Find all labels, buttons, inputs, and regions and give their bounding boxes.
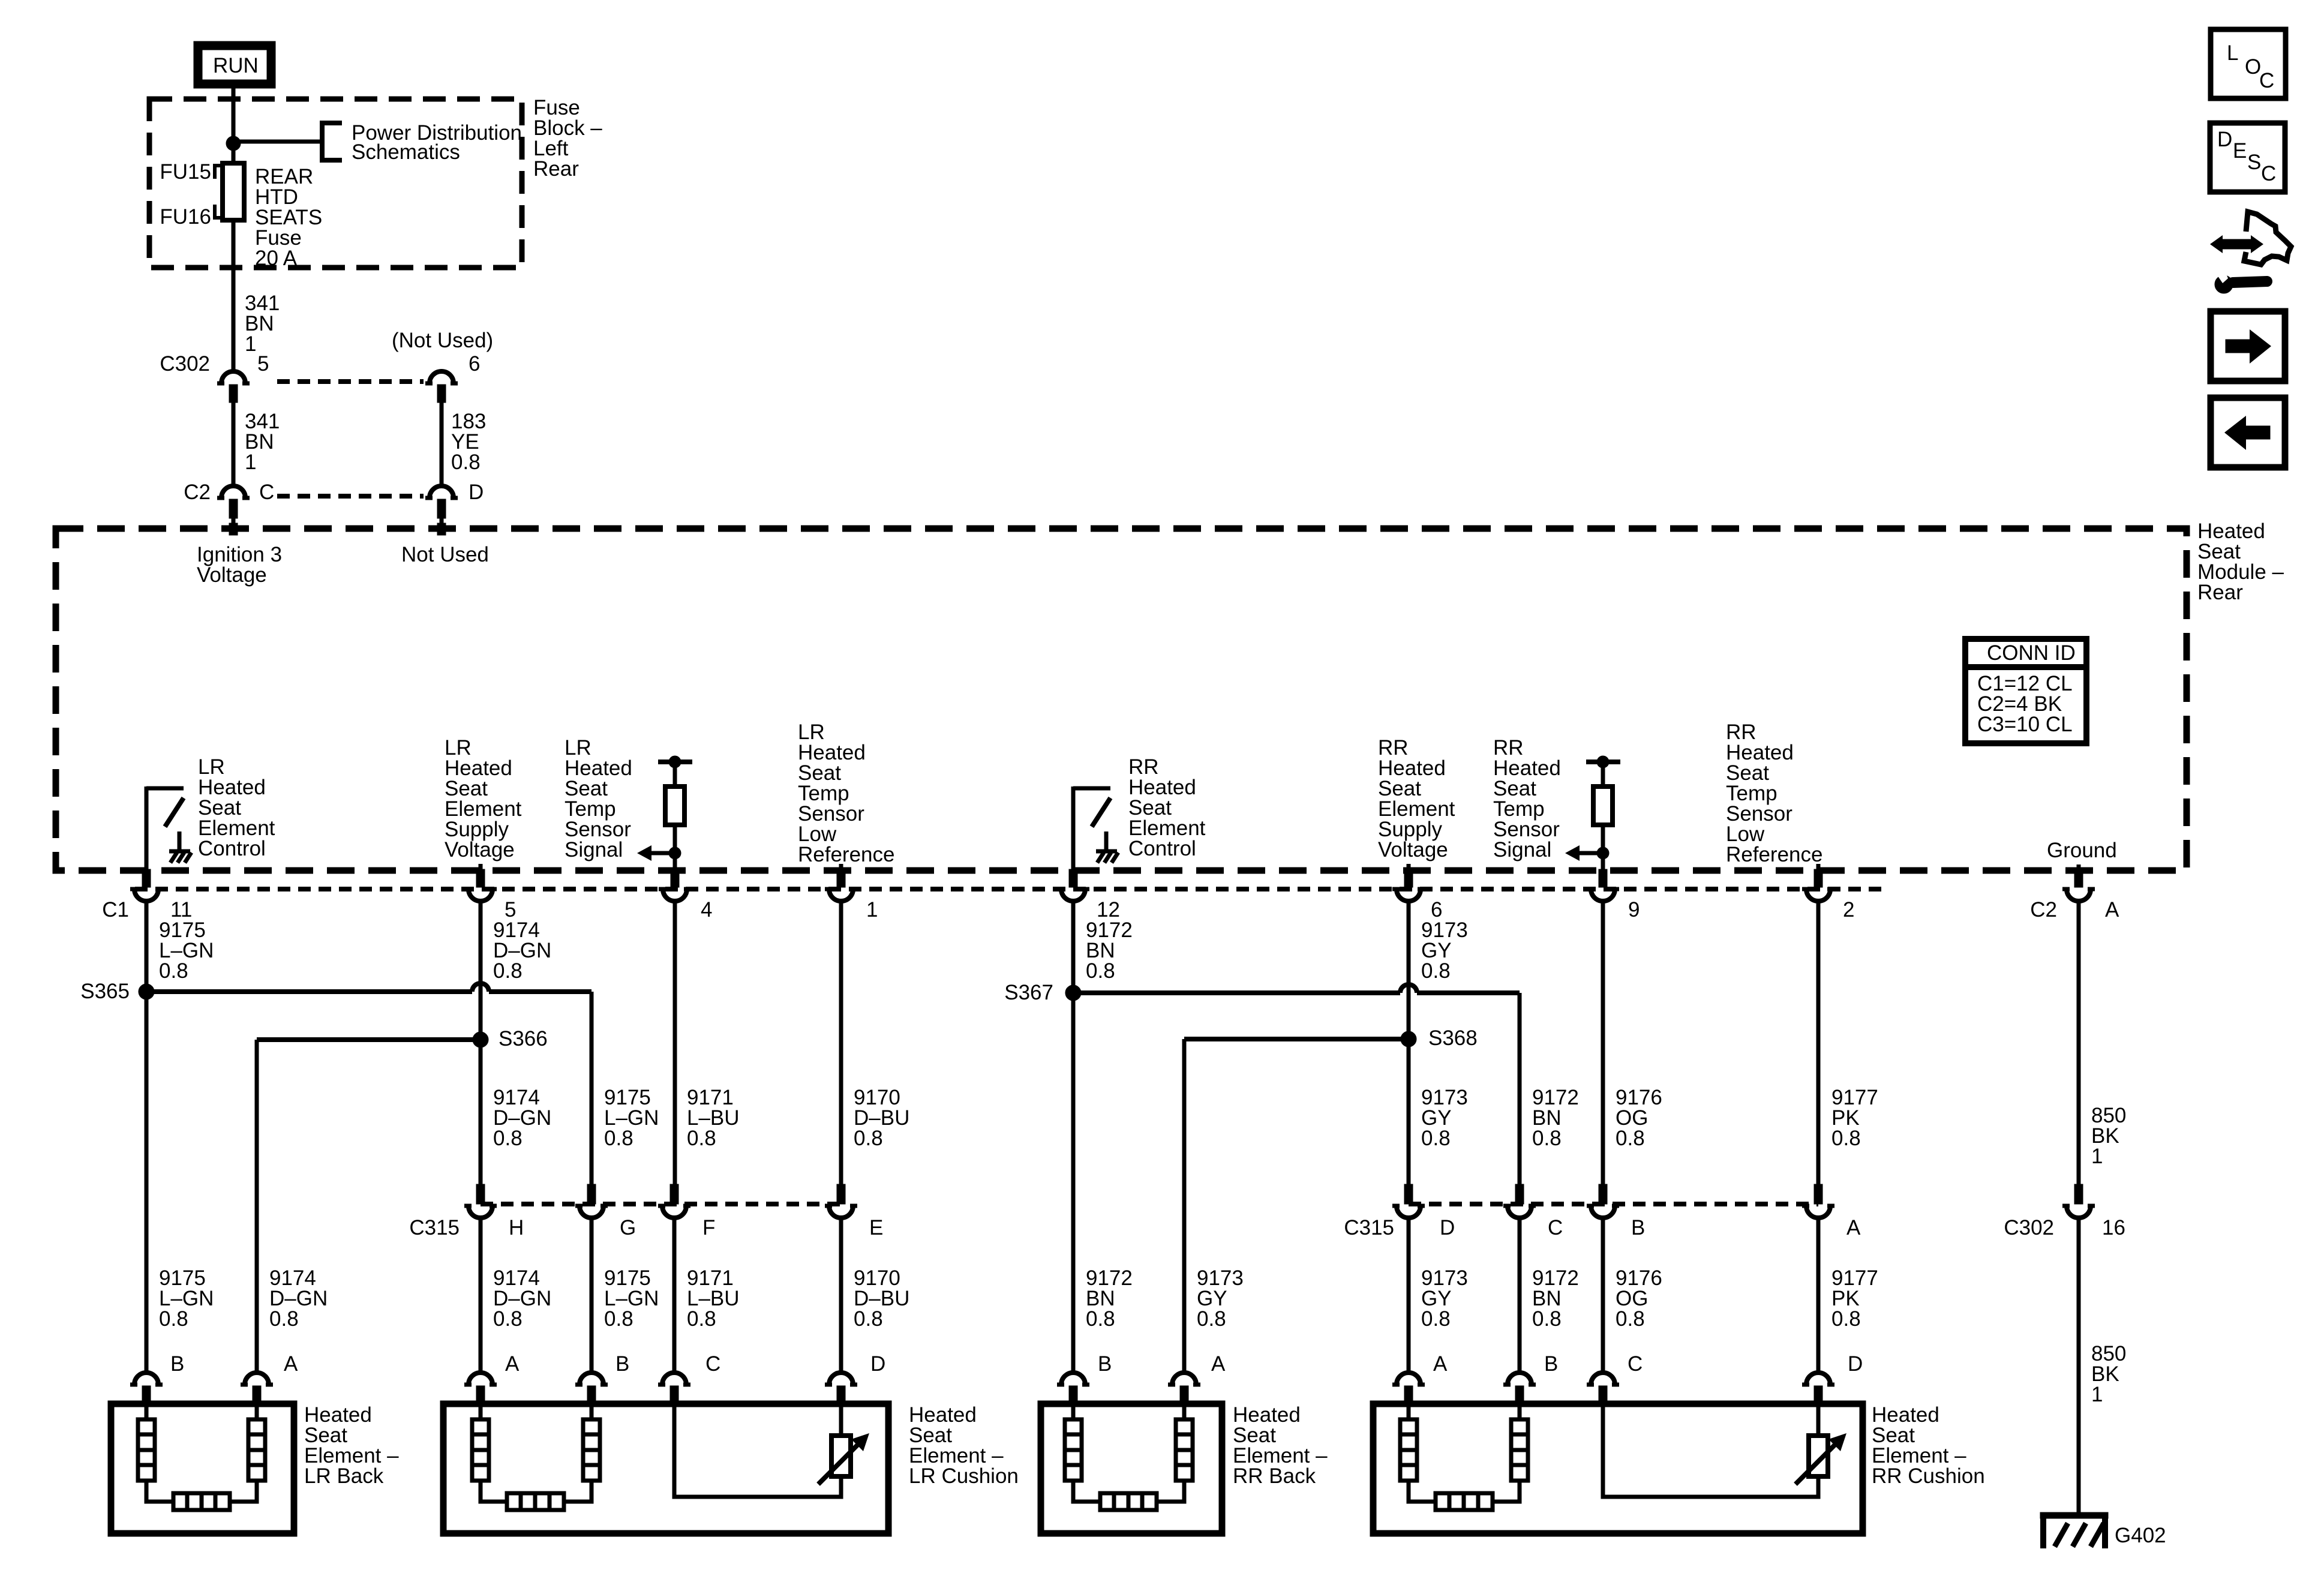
connector C315 pin A <box>1802 1184 1834 1218</box>
wire C315 G to LR cushion B <box>590 1218 594 1372</box>
svg-text:C2: C2 <box>184 481 211 504</box>
label 6 wire 9173 GY 0.8 <box>1421 918 1468 983</box>
connector C2 pin A (module ground) <box>2062 869 2095 901</box>
svg-text:0.8: 0.8 <box>493 1127 523 1150</box>
wire C315 E to LR cushion D <box>839 1218 843 1372</box>
label pin D <box>469 481 484 504</box>
svg-text:0.8: 0.8 <box>1616 1307 1645 1331</box>
label RR Heated Seat Element Control <box>1128 755 1206 860</box>
label REAR HTD SEATS Fuse 20 A <box>255 165 322 270</box>
label element pin B <box>615 1352 629 1376</box>
splice S365 <box>139 984 154 999</box>
svg-text:S365: S365 <box>80 980 130 1003</box>
svg-text:D: D <box>1440 1216 1455 1239</box>
label C302 bottom <box>2004 1216 2054 1239</box>
label Heated Seat Element - RR Back <box>1233 1403 1328 1488</box>
icon back arrow box <box>2211 398 2285 467</box>
svg-text:C3=10 CL: C3=10 CL <box>1977 713 2073 736</box>
label 9172 BN 0.8 bottom <box>1086 1266 1133 1331</box>
resistor RR temp sensor <box>1565 756 1620 871</box>
label pin 4 <box>701 898 712 921</box>
label element pin A <box>1433 1352 1448 1376</box>
switch RR heated seat element control <box>1073 786 1118 871</box>
splice S368 <box>1401 1031 1416 1047</box>
svg-text:LR Back: LR Back <box>304 1464 384 1488</box>
wire LR cushion C loop <box>674 1405 841 1497</box>
connector element pin <box>1168 1373 1200 1405</box>
fuse block dashed box <box>149 99 522 268</box>
label 341 BN 1 (lower) <box>245 410 280 474</box>
svg-text:B: B <box>1098 1352 1112 1376</box>
svg-text:0.8: 0.8 <box>1532 1127 1562 1150</box>
label pin G <box>620 1216 636 1239</box>
svg-text:Control: Control <box>1128 837 1196 860</box>
connector C1 pin 5 <box>464 869 497 901</box>
connector C1 pin 2 <box>1802 869 1834 901</box>
svg-text:A: A <box>1211 1352 1226 1376</box>
label 9176 OG 0.8 mid <box>1616 1086 1662 1150</box>
connector C1 pin 6 <box>1392 869 1425 901</box>
svg-text:0.8: 0.8 <box>159 959 188 983</box>
label RR Heated Seat Temp Sensor Signal <box>1493 736 1561 861</box>
label LR Heated Seat Temp Sensor Low Reference <box>798 721 894 866</box>
svg-text:Signal: Signal <box>1493 838 1551 861</box>
svg-text:Signal: Signal <box>565 838 623 861</box>
connector C1 pin 4 <box>659 869 691 901</box>
wire LR low reference pin stub <box>839 864 843 872</box>
svg-text:E: E <box>2233 139 2247 163</box>
wire to power distribution bracket <box>233 140 322 144</box>
wire 183 YE 0.8 to C2 pin D <box>440 403 444 485</box>
svg-text:D: D <box>469 481 484 504</box>
wire 850 BK C302 16 to G402 <box>2077 1218 2081 1512</box>
svg-text:C315: C315 <box>1344 1216 1394 1239</box>
label pin F <box>702 1216 715 1239</box>
label 11 wire 9175 L-GN 0.8 <box>159 918 214 983</box>
connector element pin <box>825 1373 857 1405</box>
svg-text:(Not Used): (Not Used) <box>392 329 493 352</box>
connector element pin <box>1802 1373 1834 1405</box>
svg-text:C: C <box>705 1352 720 1376</box>
heating element LR back left <box>138 1405 173 1502</box>
svg-text:9: 9 <box>1628 898 1640 921</box>
svg-text:C: C <box>259 481 274 504</box>
label element pin C <box>705 1352 720 1376</box>
heating element LR cushion left <box>472 1405 507 1502</box>
wire 9177 PK pin2 to C315 A <box>1816 901 1821 1193</box>
wire LR supply voltage pin stub <box>479 864 483 872</box>
svg-text:L: L <box>2227 41 2238 65</box>
svg-text:0.8: 0.8 <box>1421 959 1451 983</box>
thermistor RR cushion temp sensor <box>1795 1433 1846 1484</box>
splice S367 <box>1065 985 1081 1001</box>
svg-text:0.8: 0.8 <box>854 1307 883 1331</box>
wire RR supply voltage pin stub <box>1407 864 1411 872</box>
svg-text:0.8: 0.8 <box>493 959 523 983</box>
connector element pin <box>1503 1373 1536 1405</box>
svg-text:C: C <box>1628 1352 1643 1376</box>
label pin A <box>1846 1216 1861 1239</box>
label 341 BN 1 (upper) <box>245 292 280 356</box>
heating element RR back left <box>1065 1405 1100 1502</box>
connector element pin <box>658 1373 690 1405</box>
label S368 <box>1428 1026 1478 1050</box>
label element pin D <box>1848 1352 1863 1376</box>
svg-text:LR Cushion: LR Cushion <box>909 1464 1019 1488</box>
svg-text:F: F <box>702 1216 715 1239</box>
svg-text:6: 6 <box>469 352 480 376</box>
label Ground <box>2047 839 2117 862</box>
heating element RR back right <box>1157 1405 1193 1502</box>
wire 9176 OG pin9 to C315 B <box>1601 901 1605 1193</box>
svg-text:0.8: 0.8 <box>451 451 481 474</box>
svg-text:B: B <box>1631 1216 1645 1239</box>
label 850 BK 1 (upper) <box>2091 1104 2126 1168</box>
svg-text:FU16: FU16 <box>160 205 211 229</box>
svg-text:RR Back: RR Back <box>1233 1464 1316 1488</box>
connector element pin <box>130 1373 163 1405</box>
box heated seat element RR cushion <box>1373 1404 1863 1533</box>
label RR Heated Seat Temp Sensor Low Reference <box>1726 721 1822 866</box>
label C302 <box>160 352 210 376</box>
label pin 6 <box>469 352 480 376</box>
svg-text:B: B <box>1544 1352 1558 1376</box>
wire S366 branch to LR back A <box>257 1040 481 1372</box>
wire 9172 BN pin12 to S367 to RR back B <box>1071 901 1076 1372</box>
label 9175 L-GN 0.8 bottom2 <box>604 1266 659 1331</box>
wire 341 BN below fuse <box>232 220 236 370</box>
label Fuse Block - Left Rear <box>533 96 602 181</box>
svg-text:B: B <box>170 1352 184 1376</box>
wire 9171 L-BU pin4 to C315 F <box>673 901 677 1193</box>
power distribution bracket <box>322 123 342 160</box>
label FU15 <box>160 160 223 184</box>
wire LR cushion D to thermistor <box>839 1405 843 1436</box>
connector C1 pin 11 <box>130 869 163 901</box>
heating element RR cushion left <box>1400 1405 1436 1502</box>
wire RR cushion D to thermistor <box>1816 1405 1821 1436</box>
wire C315 B to RR cushion C <box>1601 1218 1605 1372</box>
svg-text:0.8: 0.8 <box>687 1307 716 1331</box>
svg-text:5: 5 <box>257 352 269 376</box>
svg-text:0.8: 0.8 <box>1831 1127 1861 1150</box>
label pin C <box>259 481 274 504</box>
label 9173 GY 0.8 bottom2 <box>1421 1266 1468 1331</box>
svg-text:A: A <box>1846 1216 1861 1239</box>
svg-text:A: A <box>1433 1352 1448 1376</box>
wire C315 F to LR cushion C <box>672 1218 677 1372</box>
label element pin C <box>1628 1352 1643 1376</box>
box heated seat element LR cushion <box>443 1404 888 1533</box>
svg-text:G: G <box>620 1216 636 1239</box>
connector C315 pin B <box>1587 1184 1619 1218</box>
connector C315 pin F <box>658 1184 690 1218</box>
label 9174 D-GN 0.8 bottom <box>269 1266 328 1331</box>
label C1 <box>102 898 129 921</box>
svg-text:C: C <box>1548 1216 1563 1239</box>
svg-text:1: 1 <box>866 898 878 921</box>
ignition switch RUN box <box>194 41 275 88</box>
label pin 2 <box>1843 898 1854 921</box>
label 9173 GY 0.8 mid <box>1421 1086 1468 1150</box>
connector element pin <box>575 1373 608 1405</box>
label 12 wire 9172 BN 0.8 <box>1086 918 1133 983</box>
svg-text:Voltage: Voltage <box>445 838 515 861</box>
label 9176 OG 0.8 bottom <box>1616 1266 1662 1331</box>
heating element RR cushion right <box>1493 1405 1528 1502</box>
label pin A <box>2105 898 2119 921</box>
heating element RR back bottom <box>1100 1493 1157 1510</box>
svg-text:1: 1 <box>2091 1383 2103 1406</box>
wire C315 A to RR cushion D <box>1816 1218 1821 1372</box>
svg-text:Schematics: Schematics <box>352 140 460 164</box>
dashed connector line C315 right <box>1409 1202 1818 1206</box>
wire RR cushion C loop <box>1603 1405 1818 1497</box>
switch LR heated seat element control <box>146 786 191 871</box>
label pin B <box>1631 1216 1645 1239</box>
label element pin D <box>870 1352 885 1376</box>
label pin 16 <box>2102 1216 2125 1239</box>
svg-text:C302: C302 <box>2004 1216 2054 1239</box>
icon vehicle shortcut <box>2210 212 2291 293</box>
svg-text:0.8: 0.8 <box>604 1307 633 1331</box>
label element pin B <box>170 1352 184 1376</box>
svg-text:E: E <box>869 1216 883 1239</box>
svg-text:1: 1 <box>245 332 256 356</box>
svg-text:S367: S367 <box>1004 981 1053 1004</box>
svg-text:0.8: 0.8 <box>1616 1127 1645 1150</box>
svg-text:A: A <box>284 1352 298 1376</box>
svg-text:Rear: Rear <box>533 157 579 181</box>
svg-text:2: 2 <box>1843 898 1854 921</box>
label 9172 BN 0.8 mid <box>1532 1086 1579 1150</box>
label pin 6 <box>1431 898 1442 921</box>
svg-text:Voltage: Voltage <box>197 563 267 587</box>
heating element RR cushion bottom <box>1436 1493 1493 1510</box>
svg-text:C302: C302 <box>160 352 210 376</box>
svg-text:Voltage: Voltage <box>1378 838 1448 861</box>
label 9172 BN 0.8 bottom2 <box>1532 1266 1579 1331</box>
wire S367 branch to C315 C <box>1073 984 1520 1193</box>
label 9171 L-BU 0.8 bottom <box>687 1266 740 1331</box>
heating element LR back bottom <box>173 1493 230 1510</box>
label pin 1 <box>866 898 878 921</box>
label pin 5 <box>257 352 269 376</box>
label C2 (ground connector) <box>2030 898 2057 921</box>
label LR Heated Seat Element Supply Voltage <box>445 736 522 861</box>
wire C315 C to RR cushion B <box>1518 1218 1522 1372</box>
label 9170 D-BU 0.8 mid <box>854 1086 909 1150</box>
connector C302 pin 16 <box>2062 1184 2095 1218</box>
label (Not Used) <box>392 329 493 352</box>
wire from RUN to fuse FU15/FU16 <box>232 88 236 163</box>
label 9174 D-GN 0.8 bottom2 <box>493 1266 551 1331</box>
svg-text:C: C <box>2261 162 2276 185</box>
connector C315 pin G <box>575 1184 608 1218</box>
svg-text:0.8: 0.8 <box>1421 1307 1451 1331</box>
icon LOC box <box>2211 29 2286 98</box>
svg-text:20 A: 20 A <box>255 247 298 270</box>
wire RR low reference pin stub <box>1816 864 1821 872</box>
svg-text:1: 1 <box>245 451 256 474</box>
heating element LR cushion right <box>564 1405 600 1502</box>
wire 850 BK module ground to C302 16 <box>2077 901 2081 1193</box>
svg-text:0.8: 0.8 <box>1532 1307 1562 1331</box>
label Heated Seat Element - LR Cushion <box>909 1403 1019 1488</box>
svg-text:0.8: 0.8 <box>493 1307 523 1331</box>
label C2 <box>184 481 211 504</box>
label 9170 D-BU 0.8 bottom <box>854 1266 909 1331</box>
label pin H <box>509 1216 524 1239</box>
label LR Heated Seat Element Control <box>198 755 275 860</box>
label pin 11 <box>170 898 192 921</box>
connector C315 pin C <box>1503 1184 1536 1218</box>
svg-text:A: A <box>2105 898 2119 921</box>
connector element pin <box>1392 1373 1425 1405</box>
svg-text:CONN ID: CONN ID <box>1987 641 2076 665</box>
wire C315 D to RR cushion A <box>1407 1218 1411 1372</box>
label 9171 L-BU 0.8 mid <box>687 1086 740 1150</box>
dashed connector line C2 <box>277 494 424 499</box>
label RR Heated Seat Element Supply Voltage <box>1378 736 1455 861</box>
dotted connector line C1 <box>135 887 1888 891</box>
wire 9174 D-GN pin5 to S366 to C315 H <box>479 901 483 1193</box>
svg-text:C1: C1 <box>102 898 129 921</box>
wire module ground pin stub <box>2077 864 2081 872</box>
label element pin A <box>505 1352 520 1376</box>
svg-text:0.8: 0.8 <box>1086 959 1115 983</box>
connector element pin <box>464 1373 497 1405</box>
connector C2 pin D <box>425 486 458 535</box>
label element pin B <box>1098 1352 1112 1376</box>
thermistor LR cushion temp sensor <box>818 1433 869 1484</box>
label 9174 D-GN 0.8 mid <box>493 1086 551 1150</box>
label Heated Seat Element - LR Back <box>304 1403 399 1488</box>
svg-text:C315: C315 <box>409 1216 460 1239</box>
svg-text:0.8: 0.8 <box>1421 1127 1451 1150</box>
label 9175 L-GN 0.8 mid <box>604 1086 659 1150</box>
label S365 <box>80 980 130 1003</box>
label C315 left <box>409 1216 460 1239</box>
label Ignition 3 Voltage <box>197 543 282 587</box>
svg-text:Reference: Reference <box>1726 843 1822 866</box>
connector C1 pin 9 <box>1587 869 1619 901</box>
icon forward arrow box <box>2211 311 2285 381</box>
svg-text:G402: G402 <box>2115 1524 2166 1547</box>
label 9177 PK 0.8 bottom <box>1831 1266 1878 1331</box>
connector C315 pin H <box>464 1184 497 1218</box>
svg-text:Ground: Ground <box>2047 839 2117 862</box>
svg-text:RUN: RUN <box>213 54 259 77</box>
icon DESC box <box>2210 123 2285 192</box>
svg-text:0.8: 0.8 <box>1197 1307 1226 1331</box>
label 5 wire 9174 D-GN 0.8 <box>493 918 551 983</box>
label pin 5 <box>505 898 516 921</box>
wire 9173 GY pin6 to S368 to C315 D <box>1407 901 1411 1193</box>
box heated seat element LR back <box>111 1404 294 1533</box>
wire 341 BN 1 to C2 pin C <box>232 403 236 485</box>
node junction above fuse <box>226 136 241 151</box>
label FU16 <box>160 205 223 229</box>
label pin 12 <box>1097 898 1120 921</box>
svg-text:0.8: 0.8 <box>269 1307 299 1331</box>
fuse FU15/FU16 REAR HTD SEATS 20 A <box>223 163 244 220</box>
label 9177 PK 0.8 mid <box>1831 1086 1878 1150</box>
svg-text:Not Used: Not Used <box>401 543 489 566</box>
splice S366 <box>473 1032 488 1047</box>
svg-text:S366: S366 <box>499 1027 548 1050</box>
box heated seat element RR back <box>1041 1404 1222 1533</box>
label Heated Seat Element - RR Cushion <box>1872 1403 1985 1488</box>
label element pin A <box>284 1352 298 1376</box>
svg-text:0.8: 0.8 <box>604 1127 633 1150</box>
label LR Heated Seat Temp Sensor Signal <box>565 736 632 861</box>
label pin C <box>1548 1216 1563 1239</box>
svg-text:D: D <box>2217 128 2232 151</box>
connector element pin <box>241 1373 273 1405</box>
connector element pin <box>1587 1373 1619 1405</box>
svg-text:H: H <box>509 1216 524 1239</box>
connector C1 pin 1 <box>825 869 857 901</box>
wire S368 branch to RR back A <box>1184 1039 1409 1372</box>
svg-text:S368: S368 <box>1428 1026 1478 1050</box>
label 850 BK 1 (lower) <box>2091 1342 2126 1406</box>
connector C302 pin 6 <box>425 371 458 403</box>
connector C315 pin D <box>1392 1184 1425 1218</box>
connector C2 pin C <box>217 486 250 535</box>
wire 9175 L-GN pin11 to S365 to LR back B <box>145 901 149 1372</box>
svg-text:D: D <box>870 1352 885 1376</box>
svg-text:0.8: 0.8 <box>854 1127 883 1150</box>
resistor LR temp sensor <box>637 756 692 871</box>
label Not Used <box>401 543 489 566</box>
svg-text:S: S <box>2247 151 2261 174</box>
CONN ID table <box>1965 639 2086 743</box>
svg-text:0.8: 0.8 <box>1831 1307 1861 1331</box>
svg-text:FU15: FU15 <box>160 160 211 184</box>
label S366 <box>499 1027 548 1050</box>
heating element LR back right <box>230 1405 265 1502</box>
wire C315 H to LR cushion A <box>479 1218 483 1372</box>
svg-text:Reference: Reference <box>798 843 894 866</box>
ground G402 <box>2040 1512 2108 1548</box>
label pin 9 <box>1628 898 1640 921</box>
heated seat module dashed box <box>56 529 2187 870</box>
svg-text:16: 16 <box>2102 1216 2125 1239</box>
connector C315 pin E <box>825 1184 857 1218</box>
label element pin B <box>1544 1352 1558 1376</box>
svg-text:D: D <box>1848 1352 1863 1376</box>
svg-text:0.8: 0.8 <box>687 1127 716 1150</box>
wire 9170 D-BU pin1 to C315 E <box>839 901 843 1193</box>
svg-text:C2: C2 <box>2030 898 2057 921</box>
svg-text:Control: Control <box>198 837 266 860</box>
heating element LR cushion bottom <box>507 1493 564 1510</box>
label pin E <box>869 1216 883 1239</box>
svg-text:C: C <box>2259 69 2274 92</box>
label pin D <box>1440 1216 1455 1239</box>
svg-text:1: 1 <box>2091 1145 2103 1168</box>
dashed connector line C302 <box>277 379 424 384</box>
label 9175 L-GN 0.8 bottom <box>159 1266 214 1331</box>
svg-text:B: B <box>615 1352 629 1376</box>
svg-text:4: 4 <box>701 898 712 921</box>
label Power Distribution Schematics <box>352 121 522 164</box>
svg-text:A: A <box>505 1352 520 1376</box>
connector element pin <box>1057 1373 1089 1405</box>
label Heated Seat Module - Rear <box>2197 520 2284 604</box>
svg-text:Rear: Rear <box>2197 581 2243 604</box>
